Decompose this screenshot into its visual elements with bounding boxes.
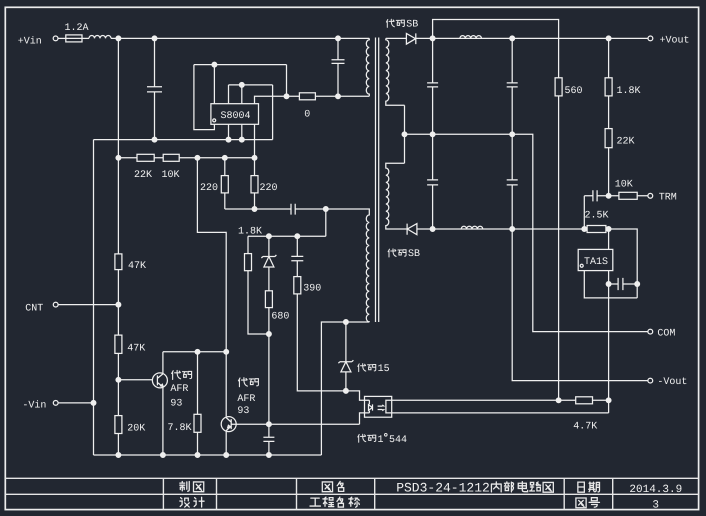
resistor 390 (294, 277, 301, 294)
junction: row139 x228 (226, 137, 231, 142)
label Q2: 代码 AFR 93 (238, 378, 258, 387)
title block text: PSD3-24-1212内部电路图 (396, 481, 553, 496)
wire: +Vin to fuse (58, 37, 66, 39)
svg-text:PSD3-24-1212: PSD3-24-1212 (396, 481, 490, 496)
capacitor C3 leads at x338 (337, 38, 339, 96)
wire: cap left down to bottom rail (583, 196, 585, 229)
svg-text:TRM: TRM (659, 192, 677, 203)
junction: row209 x254 (252, 207, 257, 212)
junction: rail/x118 (116, 36, 121, 41)
label 代码SB top (386, 19, 404, 27)
resistor 22K (input divider) (137, 154, 154, 161)
transistor Q2 (PNP) (221, 417, 236, 432)
resistor 220 #2 leads (254, 158, 256, 209)
resistor 47K #2 (115, 335, 122, 353)
wire: TRM row (584, 195, 647, 197)
wire: 560 down to opto row (558, 96, 560, 400)
wire: S8004 top pins to inner row (229, 85, 273, 104)
wire: 1.8K node row y236 (248, 209, 326, 236)
IC U1 S8004 box (211, 104, 259, 125)
resistor 22K (right) (605, 129, 612, 148)
svg-text:TA1S: TA1S (584, 257, 608, 268)
svg-text:680: 680 (271, 312, 289, 323)
resistor 1.8K leads (248, 236, 269, 334)
wire: S8004 pin to 22K row (254, 124, 256, 158)
diode D1 (SB) top (406, 33, 415, 44)
junction: bus x226 (224, 453, 229, 458)
svg-text:-Vin: -Vin (22, 400, 46, 412)
terminal COM (648, 329, 653, 334)
transformer T1 secondary lower winding (386, 163, 407, 229)
svg-text:1.8K: 1.8K (617, 86, 641, 97)
wire: winding bottom row y322 (321, 322, 369, 455)
capacitor C7 leads (x512 top) (511, 38, 513, 134)
title block text: 设计 (180, 497, 204, 507)
junction: 4.7K right x608 (606, 398, 611, 403)
wire: Q2 emitter down (225, 431, 227, 455)
resistor 47K #2 leads (117, 305, 119, 380)
text labels (schematic) (18, 19, 690, 446)
junction: zener row x345 (344, 389, 349, 394)
resistor 47K #1 leads (117, 158, 119, 305)
wire: 390 bottom to zener row (297, 294, 369, 400)
transformer T1 primary upper winding (366, 38, 369, 96)
svg-text:+Vout: +Vout (660, 35, 690, 46)
svg-text:10K: 10K (615, 179, 633, 190)
svg-text:544: 544 (389, 435, 407, 446)
wire: Q1 collector up (162, 352, 164, 374)
terminal TRM (648, 193, 653, 198)
wire: 220 bottom row y209 (225, 208, 369, 210)
capacitor C8 leads (x432 bottom) (432, 134, 434, 229)
IC U3 TA1S box (578, 249, 613, 270)
resistor 7.8K leads (197, 352, 199, 455)
resistor 680 (265, 291, 272, 308)
inductor L2 (top rail) (460, 36, 482, 39)
title block text: 图号 (576, 498, 600, 508)
wire: 22K down to TRM row (608, 148, 610, 196)
svg-text:1: 1 (378, 435, 384, 446)
svg-text:CNT: CNT (25, 304, 43, 315)
capacitor C9 leads (x512 bottom) (511, 134, 513, 229)
svg-text:-Vout: -Vout (657, 377, 687, 388)
capacitor C6 plates (427, 83, 438, 87)
wire: COM row (405, 134, 648, 331)
wire: inner row right vertical (272, 85, 274, 140)
wire: opto collector row y400 (392, 399, 609, 401)
capacitor C7 plates (507, 83, 518, 87)
wire: -Vin to x93 (58, 402, 93, 404)
optocoupler U2 box (365, 396, 392, 417)
capacitor C4 (series) plates (291, 204, 295, 215)
wire: loop right vertical to 0-row (286, 65, 288, 97)
junction: step/collector row (224, 349, 229, 354)
junction: winding bottom/zener x345 (344, 320, 349, 325)
svg-text:390: 390 (303, 283, 321, 294)
junction: row139 x241 (239, 137, 244, 142)
junction: 680 node x268 (267, 332, 272, 337)
terminal CNT (53, 302, 58, 307)
junction: loop top x214 (212, 62, 217, 67)
capacitor C6 leads (x432 top) (432, 38, 434, 134)
wire: 0-row to transformer (315, 95, 369, 97)
wire: secondary mid tap vertical (404, 105, 406, 163)
resistor 1.8K (right) leads (608, 38, 610, 128)
capacitor C2 plates (147, 87, 162, 92)
junction: 22K row x254 (252, 155, 257, 160)
wire: vertical x118 rail to 22K row (117, 38, 119, 157)
wire: S8004 bottom pins to row139 (229, 124, 242, 139)
svg-text:1.2A: 1.2A (65, 23, 89, 34)
junction: 22K row x197 (195, 155, 200, 160)
resistor 2.5K (587, 226, 606, 233)
resistor 10K (input divider) (163, 154, 179, 161)
svg-text:15: 15 (378, 364, 390, 375)
junction: rail x608 after 2.5K (606, 227, 611, 232)
svg-text:20K: 20K (127, 424, 145, 435)
wire: S8004 pin to 0-row (255, 96, 300, 103)
svg-text:2014.3.9: 2014.3.9 (629, 484, 682, 496)
svg-text:7.8K: 7.8K (168, 423, 192, 434)
MAIN SCHEMATIC (53, 20, 653, 458)
junction: COM row x432 (430, 132, 435, 137)
IC U3 pin-1 mark (580, 264, 583, 267)
wire: Q1 emitter down (162, 387, 164, 455)
svg-text:220: 220 (260, 183, 278, 194)
wire: Q2 base row y424 (231, 413, 369, 424)
terminal -Vin (53, 401, 58, 406)
svg-text:22K: 22K (134, 170, 152, 181)
junction: row236 x297 (295, 234, 300, 239)
junction: -Vin node (91, 401, 96, 406)
capacitor C3 plates (332, 60, 345, 64)
junction: row236 x268 (267, 234, 272, 239)
transistor Q1 (NPN) (152, 373, 167, 388)
wire: 560 over-route (433, 20, 559, 78)
svg-text:SB: SB (406, 20, 418, 31)
wire: 22K/10K row (118, 157, 254, 159)
junction: bus x162 (161, 453, 166, 458)
inductor L3 (bottom rail) (461, 226, 483, 229)
wire: 680 node down to T2 base row (268, 334, 270, 424)
junction: x338 on 0-row (336, 94, 341, 99)
IC U1 pin-1 mark (213, 119, 216, 122)
label Q1: 代码 AFR 93 (172, 370, 192, 379)
junction: bottom rail x584 (582, 227, 587, 232)
title block text: 工程名称 (310, 497, 359, 507)
terminal +Vout (648, 36, 653, 41)
svg-text:2.5K: 2.5K (585, 211, 609, 222)
title block text: 日期 (578, 482, 600, 492)
capacitor C8 plates (427, 180, 438, 185)
junction: x286 on 0-row (284, 94, 289, 99)
wire: left long vertical x93 (93, 140, 95, 455)
svg-text:AFR: AFR (237, 394, 255, 405)
zener diode 代码15 lead (345, 322, 347, 391)
svg-text:+Vin: +Vin (18, 35, 42, 47)
wire: opto emitter row y412 (392, 412, 609, 414)
fuse 1.2A (66, 35, 82, 42)
resistor 220 #1 (221, 176, 228, 193)
junction: rail x512 (510, 36, 515, 41)
capacitor C5 leads (296, 236, 298, 276)
wire: 2.5K right to corner down (606, 229, 637, 298)
junction: row209 x325 (323, 207, 328, 212)
svg-text:0: 0 (304, 110, 310, 121)
junction: 560/4.7K row (556, 398, 561, 403)
junction: base row x268 (267, 422, 272, 427)
junction: COM row x512 (510, 132, 515, 137)
capacitor C11 plates (618, 278, 623, 290)
transformer T1 core (376, 38, 379, 323)
svg-text:SB: SB (408, 249, 420, 260)
resistor 7.8K (194, 414, 201, 432)
junction: bottom rail x512 (510, 227, 515, 232)
capacitor C11 row (609, 283, 638, 285)
wire: base row to Q1 (118, 379, 152, 381)
resistor 680 leads (268, 267, 270, 334)
resistor 560 (555, 78, 562, 96)
svg-text:1.8K: 1.8K (238, 227, 262, 238)
junction: rail x432 (430, 36, 435, 41)
junction: T1 base node (116, 377, 121, 382)
resistor 20K leads (117, 380, 119, 455)
wire: CNT to divider (58, 304, 118, 306)
svg-text:3: 3 (652, 500, 659, 512)
resistor 1.8K (245, 254, 252, 271)
junction: row139 x154 (152, 137, 157, 142)
resistor 1.8K (right) (605, 78, 612, 96)
junction: 22K row x225 (222, 155, 227, 160)
wire: row y139 (94, 139, 273, 141)
wire: +Vin rail (111, 37, 369, 39)
junction: bus x197 (195, 453, 200, 458)
label 代码15 (358, 364, 376, 372)
resistor 10K (TRM) (619, 192, 637, 199)
svg-text:4.7K: 4.7K (573, 422, 597, 433)
wire: step from 22K row to T2 collector line (197, 158, 226, 417)
resistor R0 (0 ohm) (299, 93, 315, 100)
svg-text:93: 93 (170, 399, 182, 410)
title block text: 制图 (180, 482, 204, 492)
svg-text:22K: 22K (617, 137, 635, 148)
zener diode D3 (261, 255, 276, 267)
capacitor C12 leads (268, 424, 270, 455)
transformer T1 primary lower winding (366, 209, 369, 322)
junction: rail/x154 (152, 36, 157, 41)
junction: 22K row x118 (116, 155, 121, 160)
svg-text:93: 93 (237, 406, 249, 417)
optocoupler U2 phototransistor (378, 400, 392, 413)
label 代码1"544 (358, 434, 376, 442)
wire: collector row y351 (163, 351, 226, 353)
transformer T1 secondary upper winding (386, 38, 405, 105)
title block: row lines (5, 478, 698, 509)
svg-text:47K: 47K (127, 344, 145, 355)
zener diode D3 lead top (268, 236, 270, 256)
junction: mid tap/COM row (402, 132, 407, 137)
wire: vertical x608 through TA1S (608, 229, 610, 413)
junction: rail/x338 (336, 36, 341, 41)
resistor 220 #2 (251, 176, 258, 193)
junction: bus x118 (116, 453, 121, 458)
svg-text:560: 560 (565, 86, 583, 97)
wire: +Vout rail (416, 37, 648, 39)
resistor 220 #1 leads (224, 158, 226, 209)
svg-text:47K: 47K (128, 261, 146, 272)
junction: bus x268 (267, 453, 272, 458)
svg-text:220: 220 (200, 183, 218, 194)
junction: TRM row x608 (606, 193, 611, 198)
junction: inner row x241 (239, 83, 244, 88)
junction: cap row x608 (606, 282, 611, 287)
junction: bottom rail x432 (430, 227, 435, 232)
wire: TA1S left pin down and bottom row (584, 271, 637, 298)
svg-text:S8004: S8004 (221, 111, 251, 122)
optocoupler U2 LED (369, 400, 373, 413)
terminal +Vin (53, 36, 58, 41)
resistor 47K #1 (115, 254, 122, 270)
svg-text:10K: 10K (162, 170, 180, 181)
zener diode 代码15 (338, 360, 353, 372)
resistor 20K (115, 416, 122, 434)
wire: bottom bus y455 (94, 454, 322, 456)
svg-text:COM: COM (657, 328, 675, 339)
diode D2 (SB) bottom (407, 224, 417, 235)
capacitor C12 plates (263, 437, 274, 441)
wire: S8004 feedback loop left (194, 65, 287, 130)
wire: primary winding top to rail (label SB) (386, 37, 407, 39)
junction: collector row x197 (195, 349, 200, 354)
title block text: 图名 (322, 481, 343, 491)
junction: rail x608 (606, 36, 611, 41)
capacitor C9 plates (507, 180, 518, 185)
wire: bottom secondary rail (417, 228, 587, 230)
terminal -Vout (648, 378, 653, 383)
svg-text:AFR: AFR (170, 384, 188, 395)
capacitor C10 plates (TRM) (593, 190, 597, 201)
junction: cap row x637 (635, 282, 640, 287)
resistor 4.7K (576, 397, 593, 404)
capacitor C5 plates (291, 256, 303, 260)
inductor L1 (89, 36, 111, 39)
wire: capacitor C2 leads at x154 (154, 38, 156, 139)
label 代码SB bottom (388, 249, 406, 257)
wire: fuse to inductor (82, 37, 89, 39)
junction: CNT node (116, 302, 121, 307)
wire: Q2 collector up (225, 416, 227, 417)
wire: -Vout drop from x512 (512, 229, 648, 381)
